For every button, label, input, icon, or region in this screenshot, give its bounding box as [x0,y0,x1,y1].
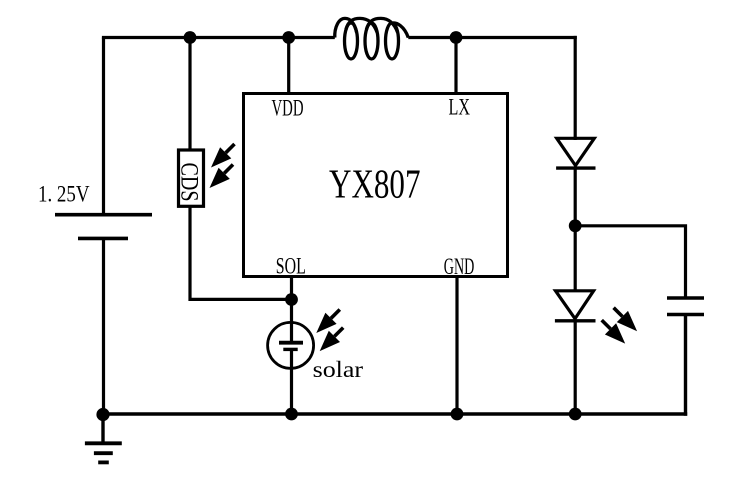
light arrow into CDS lower [210,165,234,189]
LED D2 triangle [556,291,594,319]
solar cell circle [268,322,314,368]
node bottom rail GND [451,408,464,421]
node bottom rail solar [285,408,298,421]
svg-text:VDD: VDD [272,95,304,121]
photoresistor CDS body [179,150,204,206]
wire bottom rail [104,412,688,415]
wire SOL pin down [290,277,293,344]
ground stem [101,414,104,443]
svg-text:CDS: CDS [176,163,205,202]
ground bar 1 [85,441,122,445]
battery B1 negative plate [78,237,128,241]
label 1.25V [38,182,90,208]
solar cell short plate [283,348,297,351]
wire CDS to SOL node [190,206,292,299]
node top junction (CDS branch) [184,31,197,44]
svg-text:GND: GND [444,254,475,280]
label solar [313,357,364,382]
ground bar 2 [94,451,113,455]
ground bar 3 [98,460,109,464]
wire battery to bottom rail [102,238,105,414]
inductor L1 [335,18,409,59]
light arrow into CDS upper [211,144,235,168]
wire solar cell bottom [290,349,293,414]
light arrow out of LED lower [602,320,626,344]
svg-text:SOL: SOL [276,254,306,280]
wire diode to LED node [574,168,577,292]
pin label GND [444,254,475,280]
node bottom rail LED [569,408,582,421]
light arrow out of LED upper [614,308,638,332]
label YX807 [329,161,421,207]
battery B1 positive plate [55,213,152,217]
node diode junction [569,219,582,232]
pin label LX [449,95,471,121]
node SOL junction [285,293,298,306]
wire LED to bottom rail [574,321,577,414]
node top junction (VDD branch) [282,31,295,44]
wire top rail left segment [102,36,335,39]
svg-text:1. 25V: 1. 25V [38,182,90,208]
svg-text:solar: solar [313,357,364,382]
solar cell long plate [279,341,303,345]
wire diode node to capacitor [575,226,685,298]
wire battery positive up left rail [102,38,105,215]
label CDS (rotated) [176,163,205,202]
capacitor C1 bottom plate [667,313,704,317]
light arrow into solar upper [316,310,340,334]
LED D2 cathode bar [555,319,596,322]
diode D1 cathode bar [556,166,595,169]
node top junction (LX branch) [450,31,463,44]
diode D1 triangle [557,138,595,165]
wire VDD pin [287,38,290,94]
node bottom rail left [96,408,109,421]
svg-text:YX807: YX807 [329,161,421,207]
IC U1 YX807 box [244,94,508,277]
pin label SOL [276,254,306,280]
wire diode branch top [574,36,577,140]
pin label VDD [272,95,304,121]
wire CDS branch top [188,38,191,149]
wire capacitor down [684,315,687,416]
svg-text:LX: LX [449,95,471,121]
wire LX pin [454,38,457,94]
wire GND pin down [455,277,458,415]
wire top rail right segment [408,36,577,39]
light arrow into solar lower [320,328,344,352]
capacitor C1 top plate [667,296,704,300]
